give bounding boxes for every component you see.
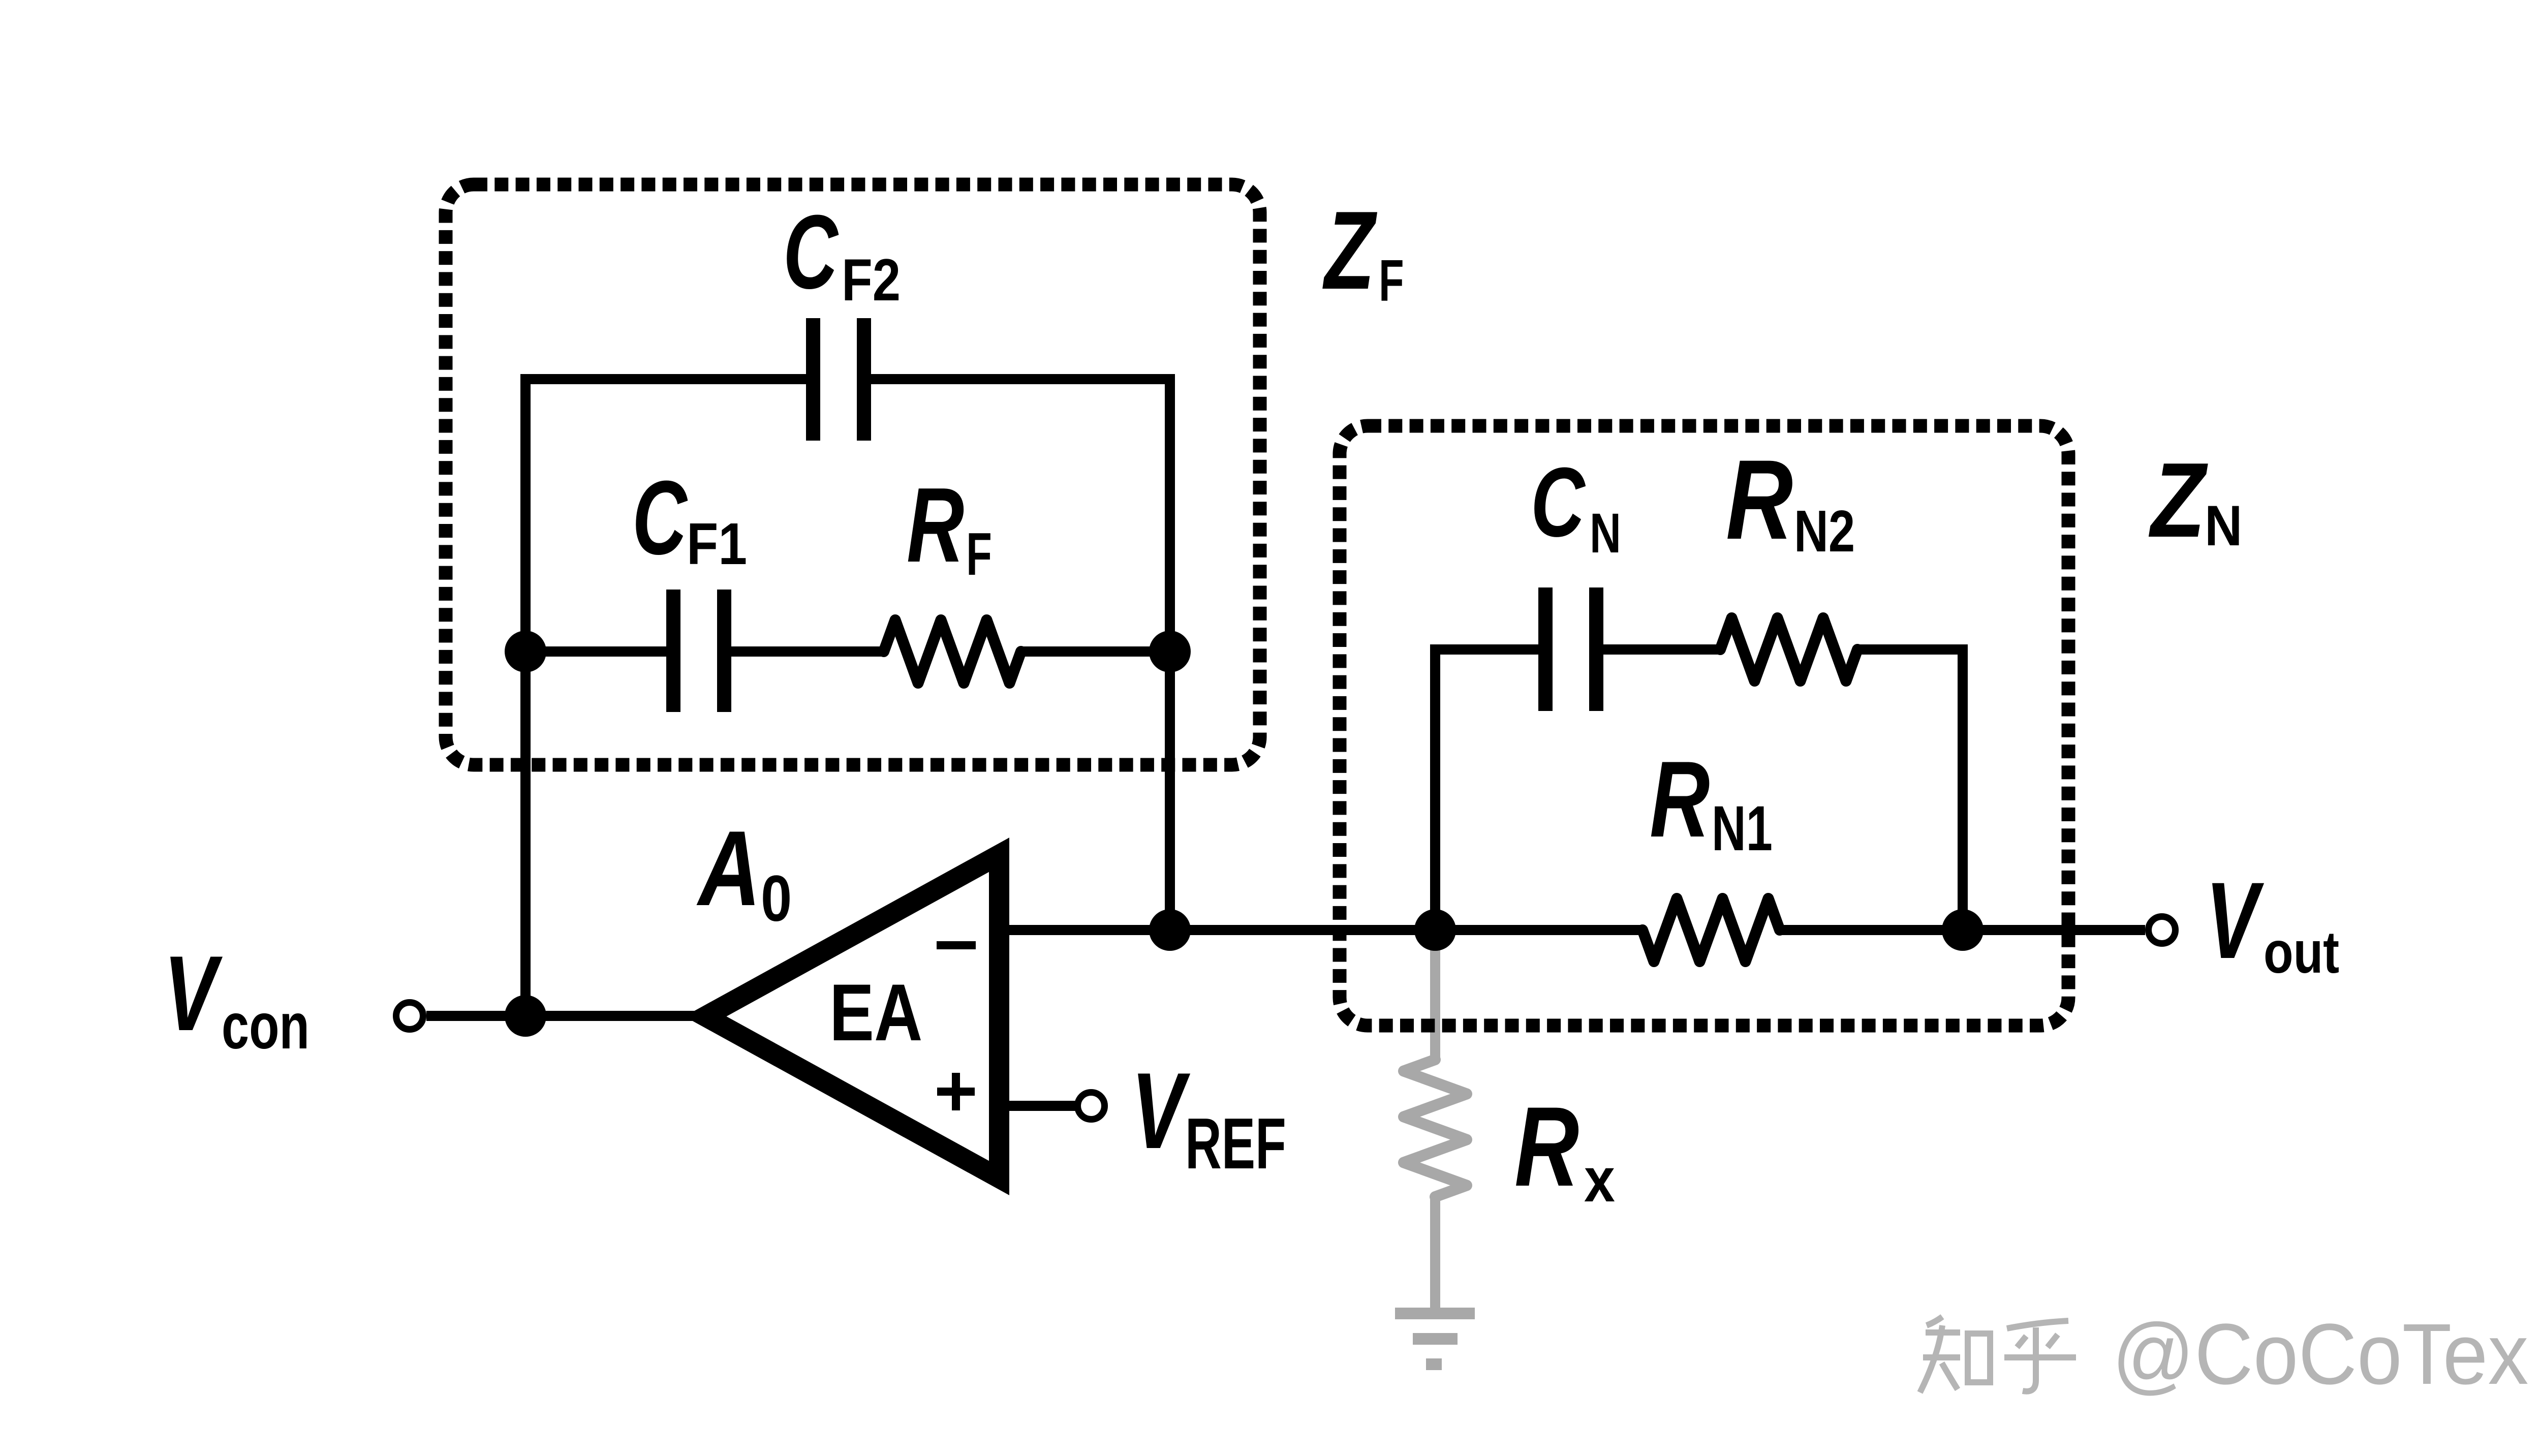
terminal VREF — [1078, 1093, 1105, 1120]
label Vout — [2206, 859, 2265, 981]
wire Vcon input — [426, 1011, 711, 1021]
node ZF lower-left — [505, 631, 546, 672]
wire ZF right leg — [1165, 374, 1175, 930]
svg-text:V: V — [2206, 859, 2265, 981]
svg-text:con: con — [222, 990, 309, 1063]
watermark text @CoCoTex — [2112, 1306, 2528, 1402]
wire ZF top branch left — [520, 374, 806, 384]
wire ZF lower branch left — [525, 646, 666, 657]
node RN1 right — [1942, 909, 1984, 951]
watermark zhihu glyph 知 — [1920, 1317, 1990, 1392]
wire ZF top branch right — [871, 374, 1170, 384]
op-amp EA triangle — [705, 855, 999, 1178]
wire ZN left leg and top branch — [1435, 649, 1538, 930]
label Rx — [1514, 1083, 1579, 1210]
label CN — [1531, 447, 1586, 557]
capacitor CF1 — [666, 590, 731, 712]
svg-text:F1: F1 — [687, 511, 747, 577]
svg-text:Z: Z — [2148, 440, 2208, 559]
svg-text:out: out — [2264, 919, 2339, 985]
svg-text:R: R — [1650, 739, 1710, 860]
label EA — [829, 967, 922, 1057]
label RN1 — [1650, 739, 1710, 860]
wire gray from output node down to Rx — [1430, 930, 1440, 1060]
label VREF — [1131, 1050, 1191, 1171]
wire RF to ZF right leg — [1021, 646, 1170, 657]
capacitor CN — [1538, 587, 1603, 711]
label RN2 — [1726, 437, 1793, 563]
watermark zhihu glyph 乎 — [2004, 1321, 2076, 1391]
plus sign inside op-amp — [937, 1073, 975, 1110]
svg-text:V: V — [1131, 1050, 1191, 1171]
svg-text:F2: F2 — [842, 247, 901, 313]
svg-text:R: R — [1726, 437, 1793, 563]
label Vcon — [164, 934, 223, 1053]
resistor RN1 zigzag — [1643, 899, 1780, 962]
minus sign inside op-amp — [937, 941, 976, 949]
node junction Vcon/ZF — [505, 995, 546, 1037]
wire ZF left leg — [520, 379, 531, 1016]
wire CN to RN2 — [1603, 644, 1720, 655]
label RF — [907, 466, 964, 584]
svg-text:@CoCoTex: @CoCoTex — [2112, 1306, 2528, 1402]
label CF2 — [783, 194, 839, 311]
wire plus input stub — [1006, 1101, 1078, 1111]
resistor RN2 zigzag — [1720, 618, 1857, 681]
svg-text:N2: N2 — [1794, 499, 1855, 565]
ground symbol (gray) — [1395, 1308, 1475, 1370]
wire main output line — [1006, 925, 1643, 935]
label ZN — [2148, 440, 2208, 559]
label A0 — [696, 809, 760, 928]
svg-text:0: 0 — [761, 862, 792, 935]
svg-text:N: N — [1590, 502, 1621, 565]
label ZF — [1322, 188, 1378, 312]
resistor RF zigzag — [884, 620, 1021, 683]
capacitor CF2 — [806, 318, 871, 441]
svg-text:R: R — [1514, 1083, 1579, 1210]
node main/ZF right leg — [1149, 909, 1191, 951]
resistor Rx zigzag (gray) — [1404, 1060, 1467, 1197]
svg-text:C: C — [1531, 447, 1586, 557]
wire RN1 to Vout — [1779, 925, 2145, 935]
wire CF1 to RF — [731, 646, 884, 657]
node ZF lower-right — [1149, 631, 1191, 672]
wire gray Rx to ground — [1430, 1197, 1440, 1313]
terminal Vcon circle — [396, 1003, 423, 1030]
svg-text:C: C — [632, 459, 688, 577]
svg-text:A: A — [696, 809, 760, 928]
svg-text:EA: EA — [829, 967, 922, 1057]
svg-text:N: N — [2205, 494, 2242, 557]
wire RN2 and ZN right leg — [1857, 649, 1963, 930]
svg-text:Z: Z — [1322, 188, 1378, 312]
box ZN dotted — [1340, 426, 2068, 1026]
node main/ZN left leg/Rx — [1414, 909, 1456, 951]
terminal Vout — [2149, 917, 2176, 944]
svg-text:C: C — [783, 194, 839, 311]
svg-text:REF: REF — [1185, 1103, 1286, 1184]
svg-text:x: x — [1584, 1145, 1615, 1215]
box ZF dotted — [446, 184, 1260, 765]
svg-text:N1: N1 — [1712, 793, 1773, 864]
svg-text:F: F — [1379, 248, 1404, 314]
svg-text:F: F — [966, 520, 992, 587]
svg-text:V: V — [164, 934, 223, 1053]
svg-text:R: R — [907, 466, 964, 584]
label CF1 — [632, 459, 688, 577]
